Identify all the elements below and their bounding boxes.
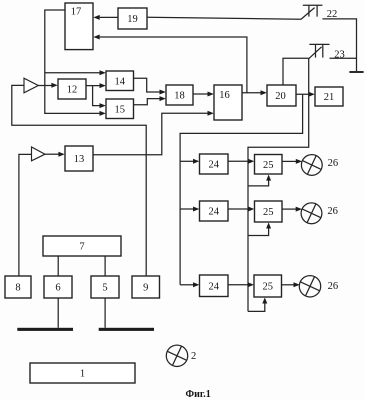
wire switch 23 right lead to rail — [330, 57, 357, 59]
wire block 18 output to block 16 — [193, 93, 209, 95]
svg-text:24: 24 — [208, 207, 219, 218]
svg-text:7: 7 — [79, 242, 84, 253]
svg-text:26: 26 — [327, 206, 338, 217]
arrowhead into block 15 lower — [100, 111, 106, 116]
arrowhead into lamp 26c — [294, 282, 300, 287]
arrowhead into block 16 lower — [208, 111, 214, 116]
arrowhead into block 25 row1 — [248, 159, 254, 164]
ground bar left — [17, 328, 73, 331]
svg-text:16: 16 — [219, 90, 230, 101]
switch 23 — [309, 44, 330, 58]
wire block 13 output to block 16 lower input — [93, 113, 209, 155]
block 18 — [166, 85, 193, 105]
arrowhead into block 16 upper — [208, 92, 214, 97]
lamp 26c — [299, 276, 320, 297]
wire bus to block 24 row3 — [180, 284, 194, 286]
svg-text:25: 25 — [262, 282, 273, 293]
arrowhead into block 24 row3 — [193, 282, 199, 287]
svg-text:8: 8 — [15, 283, 20, 294]
block 6 — [44, 276, 72, 298]
wire hook to block 25 row3 bottom input — [248, 303, 265, 311]
arrowhead into block 17 lower — [93, 35, 99, 40]
block 24 row1 — [200, 154, 229, 174]
wire block 19 right lead to switch 22 — [147, 17, 301, 19]
block 25 row1 — [255, 155, 283, 175]
wire amplifier B output to block 13 — [45, 153, 59, 155]
wire block 20 output to block 21 and down to blocks 24 bus — [180, 94, 310, 285]
arrowhead into block 25 row2 bottom — [266, 223, 271, 229]
svg-text:Фиг.1: Фиг.1 — [186, 389, 211, 400]
block 9 — [132, 276, 160, 298]
wire branch to block 14 upper input — [45, 72, 101, 74]
wire amplifier A output to block 12 — [38, 85, 52, 87]
arrowhead into block 13 — [58, 152, 64, 157]
arrowhead into block 24 row1 — [193, 159, 199, 164]
block 24 row2 — [200, 201, 229, 221]
block 8 — [5, 276, 31, 298]
ground bar right — [99, 328, 154, 331]
arrowhead into lamp 26b — [296, 207, 302, 212]
svg-text:23: 23 — [334, 50, 345, 61]
wire block 14 output to block 18 — [134, 78, 161, 92]
block 5 — [91, 276, 119, 298]
arrowhead into block 15 upper — [100, 103, 106, 108]
wire block 15 output to block 18 — [134, 99, 161, 105]
block 19 — [118, 8, 147, 29]
wire switch 23 left lead to block 20 top — [283, 58, 309, 85]
arrowhead into block 17 upper — [93, 15, 99, 20]
svg-text:24: 24 — [208, 160, 219, 171]
block 14 — [106, 71, 134, 91]
block 13 — [65, 146, 93, 171]
block 24 row3 — [200, 275, 229, 297]
svg-text:5: 5 — [102, 283, 107, 294]
block 15 — [106, 99, 134, 119]
wire block 7 to block 6 — [57, 256, 59, 276]
amplifier A — [24, 78, 38, 93]
svg-text:18: 18 — [174, 91, 185, 102]
switch 22 — [301, 5, 323, 19]
wire from block 17 left to node down to blocks 14 and 15 — [45, 10, 101, 113]
wire block 24 row1 to block 25 row1 — [228, 160, 249, 162]
terminal bar — [349, 71, 363, 73]
svg-text:6: 6 — [55, 283, 60, 294]
arrowhead into lamp 26a — [296, 159, 302, 164]
arrowhead into block 14 lower — [100, 83, 106, 88]
svg-text:25: 25 — [263, 160, 274, 171]
svg-text:20: 20 — [275, 91, 286, 102]
wire switch 23 down to node feeding blocks 25 — [248, 58, 309, 311]
wire hook to block 25 row1 bottom input — [248, 180, 269, 186]
arrowhead into block 24 row2 — [193, 207, 199, 212]
wire block 25 row3 to lamp 26c — [282, 284, 295, 286]
svg-text:17: 17 — [71, 7, 82, 18]
arrowhead into block 25 row3 bottom — [262, 298, 267, 304]
arrowhead into block 25 row2 — [248, 207, 254, 212]
svg-text:25: 25 — [263, 207, 274, 218]
wire block 12 output to blocks 14 and 15 — [86, 86, 101, 106]
block 1 — [30, 363, 135, 383]
svg-text:26: 26 — [328, 158, 339, 169]
lamp 2 — [166, 345, 187, 366]
svg-text:19: 19 — [127, 14, 138, 25]
amplifier B — [32, 147, 46, 161]
lamp 26a — [301, 155, 322, 176]
arrowhead into block 25 row1 bottom — [266, 175, 271, 181]
svg-text:1: 1 — [80, 369, 85, 380]
wire hook to block 25 row2 bottom input — [248, 228, 269, 235]
svg-text:2: 2 — [191, 351, 196, 362]
arrowhead into block 25 row3 — [248, 282, 254, 287]
wire block 6 to ground bar left — [57, 298, 59, 328]
wire amplifier A input from bus — [12, 85, 146, 276]
lamp 26b — [301, 203, 322, 224]
arrowhead into block 18 lower — [160, 96, 166, 101]
block 17 — [65, 3, 93, 50]
block 25 row3 — [254, 275, 282, 297]
arrowhead into block 18 upper — [160, 90, 166, 95]
arrowhead into block 14 upper — [100, 70, 106, 75]
arrowhead into block 21 — [309, 92, 315, 97]
wire block 25 row2 to lamp 26b — [282, 208, 297, 210]
wire block 25 row1 to lamp 26a — [282, 160, 297, 162]
svg-text:22: 22 — [327, 9, 338, 20]
block 21 — [315, 87, 343, 106]
wire block 5 to ground bar right — [104, 298, 106, 328]
svg-text:26: 26 — [328, 281, 339, 292]
svg-text:14: 14 — [114, 76, 125, 87]
wire switch 22 to right rail — [322, 19, 356, 72]
wire block 24 row2 to block 25 row2 — [228, 208, 249, 210]
wire block 8 up to amplifier B input — [19, 154, 32, 276]
block 7 — [43, 236, 121, 256]
svg-text:13: 13 — [74, 154, 85, 165]
block 25 row2 — [255, 201, 283, 222]
wire block 16 output to block 20 with feedback up to block 17 — [100, 37, 262, 93]
block 16 — [214, 85, 242, 120]
block 20 — [267, 85, 296, 106]
wire bus to block 24 row1 — [180, 160, 194, 162]
svg-text:15: 15 — [114, 104, 125, 115]
svg-text:9: 9 — [143, 283, 148, 294]
wire block 24 row3 to block 25 row3 — [228, 284, 249, 286]
wire block 7 to block 5 — [104, 256, 106, 276]
block 12 — [58, 79, 86, 99]
arrowhead into block 12 — [51, 83, 57, 88]
svg-text:24: 24 — [208, 281, 219, 292]
svg-text:12: 12 — [67, 85, 78, 96]
svg-text:21: 21 — [324, 92, 335, 103]
wire block 19 output to block 17 — [100, 16, 118, 18]
wire bus to block 24 row2 — [180, 208, 194, 210]
arrowhead into block 20 — [261, 90, 267, 95]
